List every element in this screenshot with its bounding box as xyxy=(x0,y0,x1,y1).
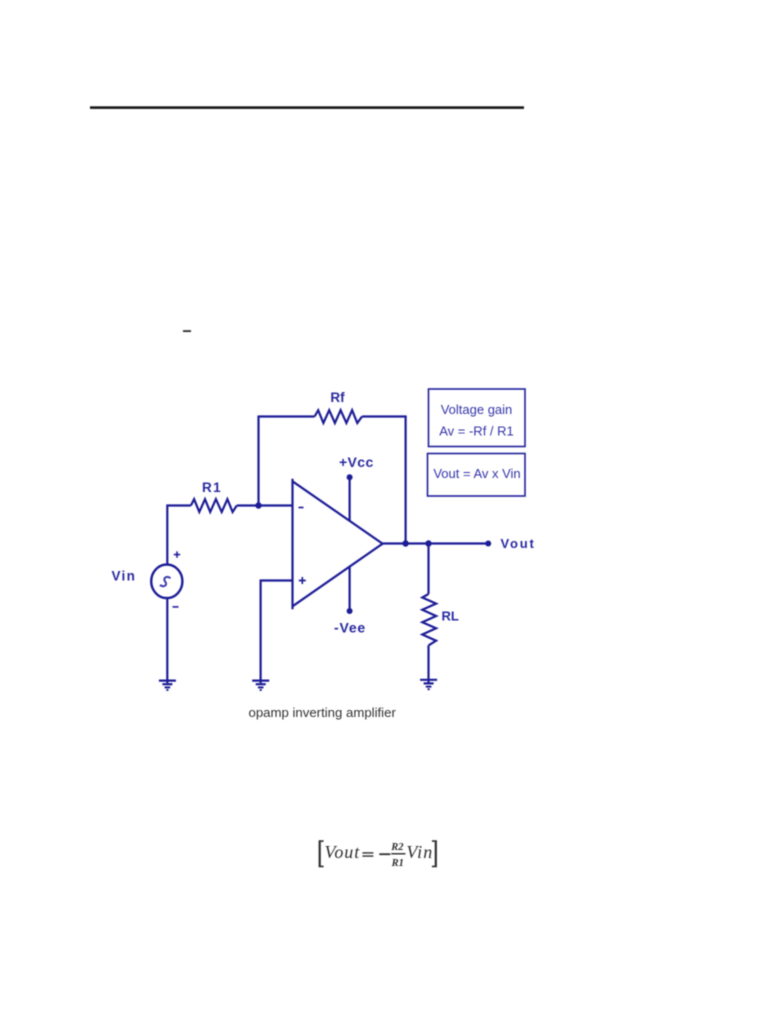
svg-text:Av = -Rf / R1: Av = -Rf / R1 xyxy=(439,424,514,439)
equation fraction bar xyxy=(391,853,405,854)
svg-text:Vin: Vin xyxy=(112,569,137,584)
svg-text:opamp inverting amplifier: opamp inverting amplifier xyxy=(249,705,397,720)
resistor R1 xyxy=(191,499,237,512)
Vee terminal dot xyxy=(347,608,353,614)
svg-text:Vout: Vout xyxy=(501,536,536,551)
wire: feedback top horizontal right segment xyxy=(362,415,407,417)
junction dot at inverting node xyxy=(255,502,261,508)
svg-text:+Vcc: +Vcc xyxy=(339,454,374,470)
sine symbol inside Vin xyxy=(160,577,171,586)
wire: input horizontal from Vin top xyxy=(167,504,191,506)
minus mark below Vin source xyxy=(173,606,179,608)
resistor Rf xyxy=(315,410,362,423)
svg-text:Vout = Av x Vin: Vout = Av x Vin xyxy=(433,466,520,481)
equation left bracket xyxy=(319,840,324,867)
equation right bracket xyxy=(432,840,437,867)
svg-text:Rf: Rf xyxy=(330,390,345,405)
equation minus sign xyxy=(379,853,390,855)
resistor RL xyxy=(422,594,436,645)
Vcc terminal dot xyxy=(347,474,353,480)
wire: Vee vertical out of op-amp xyxy=(349,567,351,612)
junction dot: RL tap xyxy=(425,540,431,546)
wire: feedback top horizontal left segment xyxy=(259,415,315,417)
top horizontal rule xyxy=(90,106,524,109)
annotation box: Vout formula xyxy=(428,454,526,497)
wire: input horizontal into inverting input xyxy=(237,504,293,506)
wire: RL top vertical xyxy=(427,544,429,595)
wire: feedback left vertical xyxy=(257,416,259,506)
svg-text:Voltage gain: Voltage gain xyxy=(441,402,513,417)
svg-text:R1: R1 xyxy=(202,480,222,495)
equation equals sign xyxy=(362,852,373,857)
op-amp U1 triangle xyxy=(293,479,383,610)
svg-text:Vout: Vout xyxy=(325,842,361,862)
annotation box: voltage gain xyxy=(429,389,526,447)
svg-text:R1: R1 xyxy=(391,858,404,869)
wire: Vin bottom vertical xyxy=(166,598,168,683)
output terminal dot xyxy=(485,541,491,547)
ground under Vin xyxy=(159,681,176,690)
wire: output horizontal xyxy=(382,542,488,544)
wire: Vin top vertical xyxy=(166,505,168,566)
wire: Vcc vertical into op-amp xyxy=(349,477,351,521)
svg-text:RL: RL xyxy=(442,609,459,624)
small dash xyxy=(183,330,191,332)
wire: non-inverting input horizontal xyxy=(261,579,293,581)
source Vin circle xyxy=(151,565,182,599)
svg-text:-Vee: -Vee xyxy=(334,620,366,636)
svg-text:R2: R2 xyxy=(390,842,404,853)
wire: non-inverting ground vertical xyxy=(260,580,262,684)
plus mark above Vin source xyxy=(174,551,180,557)
equation [Vout = -R2/R1 Vin] xyxy=(319,840,437,869)
junction dot: feedback tap xyxy=(402,540,408,546)
wire: feedback right vertical xyxy=(405,416,407,544)
svg-text:Vin: Vin xyxy=(406,842,433,862)
plus sign at non-inverting input xyxy=(299,577,306,584)
ground under RL xyxy=(420,680,437,689)
minus sign at inverting input xyxy=(299,507,304,509)
ground under non-inverting input xyxy=(252,681,269,690)
wire: RL bottom vertical xyxy=(427,645,429,682)
